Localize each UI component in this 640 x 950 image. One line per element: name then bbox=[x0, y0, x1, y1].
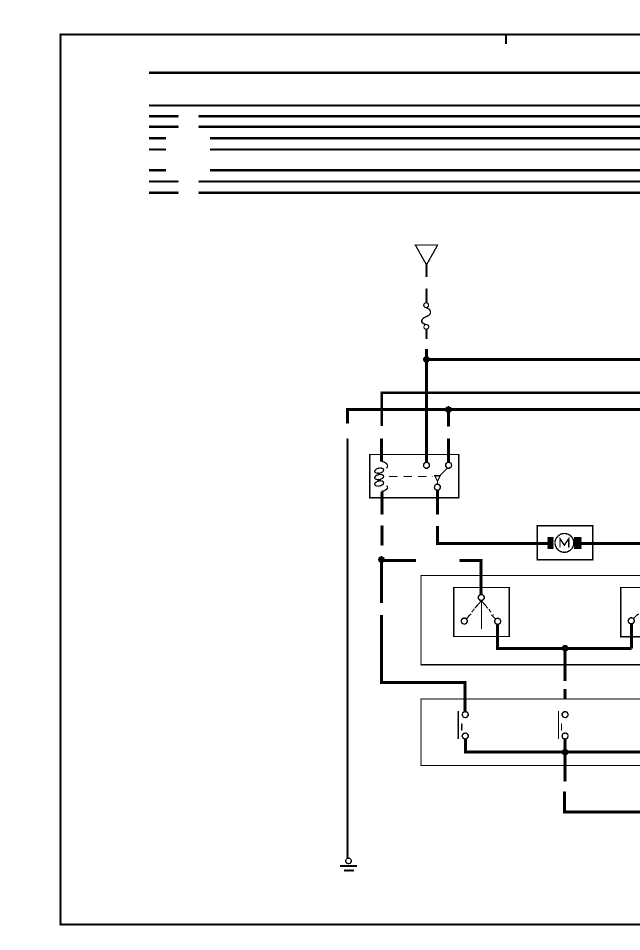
wire from junction down bbox=[564, 648, 567, 681]
wire from S1 right contact bbox=[498, 624, 632, 648]
dashed wire to wiper switch common bbox=[382, 559, 416, 562]
ground terminal circle bbox=[346, 858, 352, 864]
wiper switch S1 inner box bbox=[454, 588, 510, 637]
ground wire long vertical bbox=[347, 439, 349, 858]
wiper switch S2 inner box bbox=[621, 587, 640, 636]
motor letter M bbox=[560, 539, 569, 548]
relay NC contact bbox=[446, 462, 452, 468]
relay coil output wire bbox=[380, 491, 383, 514]
S2 contact tick bbox=[634, 614, 639, 619]
relay U1 box bbox=[370, 455, 459, 498]
border tick mark bbox=[505, 35, 507, 45]
motor M1 box bbox=[537, 526, 593, 560]
bus row 7 wire bbox=[199, 192, 640, 194]
S1 actuator arrow barbs bbox=[475, 601, 488, 609]
S1 left contact bbox=[461, 618, 467, 624]
motor right brush bbox=[574, 537, 582, 549]
wire A dash to relay coil bbox=[380, 438, 383, 461]
park switch assembly box bbox=[421, 699, 640, 766]
page border frame bottom bbox=[60, 923, 640, 925]
ground bar 1 bbox=[340, 865, 357, 867]
S1 dashed throw right bbox=[484, 604, 493, 616]
page border frame top bbox=[60, 34, 640, 36]
wire B corner bbox=[348, 410, 640, 424]
circuit breaker thermal S element bbox=[422, 308, 431, 325]
page border frame left bbox=[60, 35, 62, 925]
bus row 4 left stub bbox=[149, 148, 166, 150]
relay coil-armature dashed link bbox=[389, 475, 433, 477]
wire to motor bbox=[437, 526, 548, 544]
bus row 6 left stub bbox=[149, 180, 179, 182]
wire dash bbox=[380, 526, 383, 546]
main feed wire to relay common bbox=[425, 349, 428, 463]
relay armature output wire bbox=[436, 490, 439, 514]
relay pivot contact bbox=[434, 484, 440, 490]
wire from S2 contact down bbox=[630, 624, 633, 649]
bus row 3 left stub bbox=[149, 137, 166, 139]
park switch P1 plunger dash bbox=[461, 723, 463, 730]
bus row 4 wire bbox=[210, 148, 640, 150]
wire dash bbox=[425, 330, 427, 339]
wire dash bbox=[447, 438, 450, 462]
wire dash segment and corner to park switch bbox=[382, 615, 466, 712]
circuit breaker upper terminal bbox=[424, 303, 429, 308]
junction dot bbox=[423, 356, 430, 363]
bus row 1 left stub bbox=[149, 115, 179, 117]
motor body circle bbox=[555, 534, 574, 553]
wire stub below triangle bbox=[425, 265, 427, 277]
park switch P2 top contact bbox=[562, 712, 568, 718]
circuit breaker lower terminal bbox=[424, 325, 429, 330]
bus row 6 wire bbox=[199, 180, 640, 182]
wire dash bbox=[425, 288, 427, 302]
S1 common contact bbox=[478, 595, 484, 601]
motor left brush bbox=[548, 537, 554, 549]
bus row 2 wire bbox=[199, 126, 640, 128]
park switch P1 bar bbox=[457, 711, 459, 739]
bus line L2 bbox=[149, 104, 640, 106]
S1 left contact tick bbox=[467, 614, 472, 619]
junction dot park wire bbox=[562, 749, 569, 756]
wire W1 to right edge bbox=[426, 358, 640, 361]
S2 contact bbox=[628, 618, 634, 624]
park switch P1 top contact bbox=[462, 712, 468, 718]
wiper switch assembly outer box bbox=[421, 576, 640, 665]
bus row 1 wire bbox=[199, 115, 640, 117]
wire B branch to relay contact bbox=[447, 410, 450, 427]
S1 dashed throw left bbox=[468, 604, 478, 617]
relay armature arm bbox=[440, 468, 448, 476]
wire A corner bbox=[382, 393, 640, 427]
relay common contact bbox=[424, 462, 430, 468]
wire below park junction bbox=[564, 752, 567, 781]
park switch P2 bottom contact bbox=[562, 733, 568, 739]
S1 right contact bbox=[495, 618, 501, 624]
park switch P2 bar bbox=[557, 711, 559, 739]
S1 actuator stem bbox=[480, 601, 482, 630]
junction dot low-speed wire bbox=[562, 645, 569, 652]
power feed triangle bbox=[415, 245, 437, 265]
relay armature triangle bbox=[435, 476, 441, 482]
bus row 5 wire bbox=[210, 169, 640, 171]
bus row 3 wire bbox=[210, 137, 640, 139]
bus row 2 left stub bbox=[149, 126, 179, 128]
relay coil bbox=[382, 461, 388, 468]
bus row 5 left stub bbox=[149, 169, 166, 171]
bus line L1 bbox=[149, 71, 640, 73]
ground bar 2 bbox=[344, 870, 354, 872]
junction dot below relay coil bbox=[378, 556, 385, 563]
motor output wire to right edge bbox=[581, 542, 640, 545]
wire segment and corner down to switch common bbox=[460, 561, 482, 595]
wire dash corner to right edge bbox=[565, 791, 640, 812]
wire dash bbox=[564, 689, 567, 699]
park switch P1 bottom contact bbox=[462, 733, 468, 739]
wire from P2 bottom bbox=[564, 739, 567, 752]
S1 right contact tick bbox=[492, 615, 496, 619]
relay pivot stem bbox=[436, 481, 438, 484]
bus row 7 left stub bbox=[149, 192, 179, 194]
junction dot on wire B bbox=[445, 406, 452, 413]
wire below junction dot bbox=[380, 560, 383, 603]
park switch P2 plunger dash bbox=[561, 723, 563, 730]
wire from P1 bottom bbox=[465, 739, 640, 752]
